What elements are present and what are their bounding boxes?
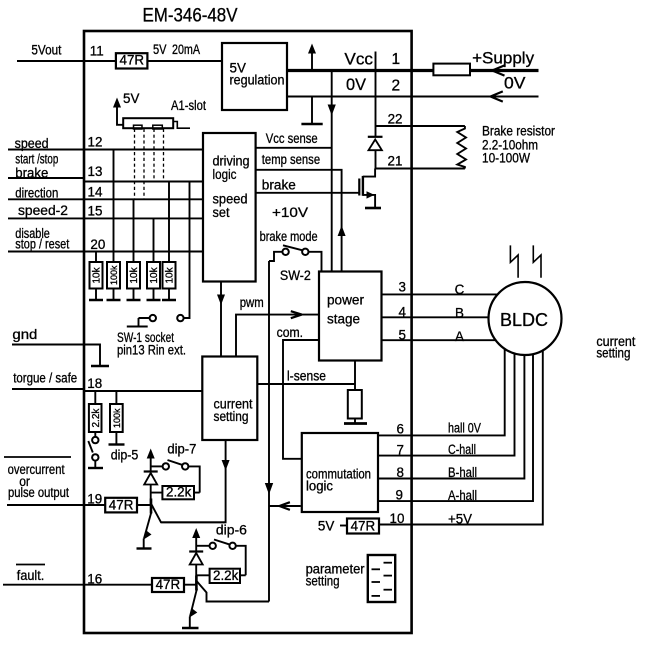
svg-text:torgue / safe: torgue / safe	[13, 371, 77, 386]
svg-text:9: 9	[396, 488, 403, 503]
svg-text:10k: 10k	[92, 266, 103, 283]
svg-text:14: 14	[88, 185, 103, 200]
svg-text:pwm: pwm	[240, 295, 264, 310]
svg-text:com.: com.	[277, 325, 304, 340]
svg-text:7: 7	[397, 443, 404, 458]
svg-text:Vcc sense: Vcc sense	[266, 131, 318, 146]
svg-text:stage: stage	[327, 312, 360, 327]
svg-text:47R: 47R	[109, 497, 134, 512]
svg-text:20: 20	[90, 237, 105, 252]
svg-text:BLDC: BLDC	[500, 310, 548, 330]
svg-text:SW-2: SW-2	[280, 268, 311, 283]
svg-text:0V: 0V	[346, 75, 367, 94]
svg-text:regulation: regulation	[230, 73, 285, 88]
svg-text:logic: logic	[213, 167, 237, 182]
svg-text:setting: setting	[596, 346, 630, 361]
svg-text:Brake resistor: Brake resistor	[482, 124, 555, 139]
svg-text:setting: setting	[214, 409, 249, 424]
svg-text:10-100W: 10-100W	[482, 151, 530, 166]
svg-text:11: 11	[90, 44, 104, 59]
svg-text:B: B	[455, 306, 464, 321]
svg-text:12: 12	[88, 134, 103, 149]
svg-text:100k: 100k	[112, 408, 122, 428]
svg-text:0V: 0V	[504, 75, 526, 93]
svg-text:speed: speed	[15, 136, 49, 151]
svg-text:pulse output: pulse output	[8, 485, 69, 500]
svg-text:temp sense: temp sense	[262, 152, 320, 167]
svg-text:10: 10	[390, 511, 405, 526]
svg-text:3: 3	[399, 280, 406, 295]
svg-text:10k: 10k	[129, 266, 140, 283]
svg-text:A: A	[455, 329, 464, 344]
svg-text:47R: 47R	[156, 577, 181, 592]
svg-text:10k: 10k	[149, 266, 160, 283]
svg-text:5V: 5V	[123, 91, 139, 106]
svg-text:10k: 10k	[165, 266, 176, 283]
svg-text:2: 2	[392, 78, 401, 95]
svg-text:brake: brake	[262, 178, 296, 193]
svg-text:2.2k: 2.2k	[213, 568, 239, 583]
svg-text:set: set	[213, 205, 230, 220]
svg-text:16: 16	[87, 572, 102, 587]
svg-text:direction: direction	[15, 186, 58, 201]
svg-text:21: 21	[388, 154, 403, 169]
svg-text:2.2k: 2.2k	[166, 485, 192, 500]
svg-text:+10V: +10V	[272, 204, 309, 220]
svg-text:pin13 Rin ext.: pin13 Rin ext.	[117, 343, 186, 358]
svg-text:stop / reset: stop / reset	[15, 237, 69, 252]
svg-text:brake: brake	[15, 165, 48, 180]
svg-text:47R: 47R	[351, 518, 376, 533]
svg-text:8: 8	[397, 465, 404, 480]
svg-text:47R: 47R	[120, 52, 145, 67]
svg-text:18: 18	[87, 376, 102, 391]
svg-text:C-hall: C-hall	[448, 442, 476, 457]
svg-text:power: power	[327, 293, 365, 308]
svg-text:5: 5	[399, 328, 406, 343]
svg-text:setting: setting	[306, 574, 340, 589]
svg-text:dip-5: dip-5	[111, 448, 139, 463]
svg-text:20mA: 20mA	[172, 42, 200, 57]
svg-text:5V: 5V	[153, 42, 167, 57]
svg-text:2.2k: 2.2k	[91, 408, 102, 428]
svg-text:EM-346-48V: EM-346-48V	[143, 6, 238, 27]
svg-text:+Supply: +Supply	[472, 49, 534, 68]
svg-text:4: 4	[399, 305, 407, 320]
svg-text:100k: 100k	[109, 265, 119, 285]
svg-text:overcurrent: overcurrent	[8, 462, 65, 477]
svg-text:B-hall: B-hall	[448, 465, 477, 480]
svg-text:15: 15	[88, 204, 103, 219]
svg-text:l-sense: l-sense	[287, 369, 326, 384]
svg-text:22: 22	[388, 112, 403, 127]
svg-text:A-hall: A-hall	[448, 488, 477, 503]
svg-text:C: C	[455, 282, 465, 297]
svg-text:logic: logic	[306, 479, 333, 494]
svg-text:dip-6: dip-6	[216, 523, 247, 538]
svg-text:1: 1	[392, 51, 401, 68]
svg-text:start /stop: start /stop	[15, 152, 58, 167]
svg-text:5Vout: 5Vout	[31, 43, 61, 58]
svg-text:13: 13	[88, 164, 103, 179]
svg-text:speed-2: speed-2	[18, 203, 68, 218]
svg-text:fault.: fault.	[17, 568, 45, 583]
svg-text:Vcc: Vcc	[344, 50, 373, 69]
svg-text:19: 19	[87, 491, 102, 506]
svg-text:hall 0V: hall 0V	[448, 421, 481, 436]
svg-text:+5V: +5V	[448, 512, 472, 527]
svg-text:gnd: gnd	[12, 327, 37, 342]
svg-text:6: 6	[397, 422, 404, 437]
svg-text:brake mode: brake mode	[260, 229, 318, 244]
svg-text:dip-7: dip-7	[167, 442, 196, 457]
svg-text:A1-slot: A1-slot	[171, 98, 206, 113]
svg-text:5V: 5V	[318, 519, 334, 534]
